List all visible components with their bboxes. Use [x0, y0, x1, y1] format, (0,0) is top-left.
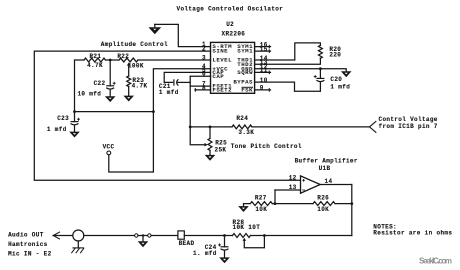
wire R20 bottom to pin13 THD2	[255, 58, 321, 64]
svg-text:C23: C23	[57, 115, 69, 122]
capacitor C22	[106, 86, 114, 89]
capacitor C24	[221, 247, 229, 250]
pin number 6	[202, 71, 206, 78]
wire R28 wiper loop	[244, 236, 264, 248]
pin number 12	[260, 64, 268, 71]
capacitor C23	[71, 122, 79, 125]
resistor R21	[84, 58, 106, 62]
svg-text:BEAD: BEAD	[179, 240, 195, 247]
pin number 16	[260, 41, 268, 48]
svg-text:1 mfd: 1 mfd	[330, 84, 350, 91]
pin number 9	[260, 85, 264, 92]
R28 wiper arrow	[243, 238, 247, 241]
svg-text:R22: R22	[117, 53, 129, 60]
op IC body U2 XR2206 box	[211, 42, 255, 93]
label R21 value 4.7K	[87, 62, 103, 69]
svg-text:10K: 10K	[317, 206, 329, 213]
IC pin name THD2 (pin13)	[237, 61, 253, 68]
resistor R20	[318, 45, 322, 58]
jack circle E2	[73, 230, 84, 241]
pin number 7	[202, 81, 206, 88]
control voltage input arrow	[370, 121, 377, 133]
wire pin14 THD1 up-and-over to R20	[255, 43, 321, 60]
ground at pin12 GND	[341, 71, 352, 77]
pin number 10	[260, 77, 268, 84]
wire pin6 CAP	[190, 75, 210, 77]
wire R24 to control voltage arrow	[252, 126, 370, 128]
wire R27 to R26	[272, 203, 313, 205]
label Mic IN - E2	[8, 251, 52, 258]
op-amp plus input mark	[302, 179, 305, 182]
svg-text:Hamtronics: Hamtronics	[8, 241, 48, 248]
R25 wiper arrow	[205, 143, 208, 147]
wire feedback vertical	[274, 190, 276, 204]
ferrite bead	[178, 231, 184, 239]
wire pin7 FSET1	[190, 85, 210, 87]
wire VCC terminal loop	[109, 112, 154, 172]
svg-text:100K: 100K	[128, 63, 144, 70]
svg-text:CAP: CAP	[212, 73, 224, 80]
capacitor C22 top lead	[109, 60, 111, 86]
label C23 value 1 mfd	[47, 126, 67, 133]
resistor R27	[250, 202, 272, 206]
pin number 12 (op-amp +)	[289, 175, 297, 182]
wire pin6/FSET1 vertical to tone pitch node	[189, 76, 191, 127]
wire op-amp inverting input	[275, 189, 301, 191]
node junction R24/R25 top	[209, 126, 212, 129]
label R25	[215, 140, 227, 147]
svg-text:Mic IN - E2: Mic IN - E2	[8, 251, 52, 258]
label R27	[255, 194, 267, 201]
label Hamtronics	[8, 241, 48, 248]
svg-text:XR2206: XR2206	[222, 30, 246, 37]
capacitor C23 top lead	[74, 112, 76, 122]
pin16 SYM1 stub	[255, 45, 271, 49]
svg-text:BYPAS: BYPAS	[233, 79, 253, 86]
label Audio OUT	[8, 231, 44, 238]
node junction C24	[223, 234, 226, 237]
svg-text:C22: C22	[94, 80, 106, 87]
wire R26 to output node	[335, 203, 352, 205]
wire shield to bead	[151, 235, 178, 237]
svg-text:14: 14	[325, 178, 333, 185]
wire R28 to op-amp output corner	[251, 235, 352, 237]
label C24	[205, 244, 217, 251]
svg-text:10K 10T: 10K 10T	[233, 224, 261, 231]
wire arrow to jack	[53, 235, 73, 237]
wire between shield terminals	[138, 235, 148, 237]
label C20	[330, 76, 342, 83]
label R25 value 25K	[215, 146, 227, 153]
wire pin1 S-RTM to top ground	[155, 24, 211, 46]
svg-text:from IC1B pin 7: from IC1B pin 7	[379, 123, 438, 130]
label Amplitude Control	[101, 41, 168, 48]
wire jack to shield terminal	[84, 235, 135, 237]
wire R23 to ground	[128, 87, 130, 96]
svg-text:U2: U2	[226, 21, 234, 28]
wire R21-R22 segment	[106, 59, 120, 61]
ground below R23	[123, 96, 134, 102]
label R26 value 10K	[317, 206, 329, 213]
svg-text:4.7K: 4.7K	[132, 82, 148, 89]
shield ground stem	[142, 236, 144, 242]
potentiometer R22	[119, 58, 138, 62]
node junction FSET1/R24/R25 wiper	[189, 126, 192, 129]
wire bead to C24/R28	[184, 235, 232, 237]
node junction R27/R26/feedback	[274, 202, 277, 205]
node junction R21/R22/C22	[109, 59, 112, 62]
R22 wiper arrow	[127, 62, 131, 65]
svg-text:SQRW: SQRW	[237, 69, 253, 76]
C23 polarity plus	[77, 118, 80, 121]
IC pin name LEVEL (pin3)	[212, 57, 232, 64]
pin number 5	[202, 67, 206, 74]
pin number 11	[260, 67, 268, 74]
wire C20 bottom to pin10 BYPAS	[255, 82, 321, 91]
C22 polarity plus	[113, 82, 116, 85]
wire R25 to ground	[209, 150, 211, 155]
IC pin name FSET2 (pin8)	[212, 87, 232, 94]
svg-text:Amplitude Control: Amplitude Control	[101, 41, 168, 48]
svg-text:R26: R26	[317, 194, 329, 201]
node junction R28 wiper tie	[263, 234, 266, 237]
svg-text:4.7K: 4.7K	[87, 62, 103, 69]
chassis ground stem	[77, 241, 79, 248]
svg-text:Tone Pitch Control: Tone Pitch Control	[231, 143, 302, 150]
label R21	[89, 53, 101, 60]
svg-text:VCC: VCC	[103, 143, 115, 150]
pin number 14 (op-amp out)	[325, 178, 333, 185]
wire C24 to ground	[224, 251, 226, 257]
label R22 value 100K	[128, 63, 144, 70]
wire op-amp output	[320, 184, 352, 186]
pin number 14	[260, 55, 268, 62]
svg-text:12: 12	[289, 175, 297, 182]
IC pin name CAP (pin6)	[212, 73, 224, 80]
svg-text:FSET2: FSET2	[212, 87, 232, 94]
svg-text:3.3K: 3.3K	[238, 129, 254, 136]
IC pin name BYPAS (pin10)	[233, 79, 253, 86]
label VCC	[103, 143, 115, 150]
IC pin name SINE (pin2)	[212, 48, 228, 55]
label NOTES:	[373, 224, 397, 231]
VCC terminal circle	[107, 151, 111, 155]
label R23 value 4.7K	[132, 82, 148, 89]
label R20	[329, 46, 341, 53]
pin number 13 (op-amp -)	[289, 184, 297, 191]
pin number 2	[202, 46, 206, 53]
svg-text:10K: 10K	[255, 206, 267, 213]
label R24 value 3.3K	[238, 129, 254, 136]
IC pin name SYM1 (pin15)	[237, 48, 253, 55]
label R20 value 220	[329, 51, 341, 58]
pin number 1	[202, 41, 206, 48]
svg-text:1 mfd: 1 mfd	[159, 89, 179, 96]
ground at pin1 net	[148, 24, 161, 34]
wire pin2 SINE to op-amp input (left outer wire)	[34, 51, 300, 180]
IC pin name SQRW (pin11)	[237, 69, 253, 76]
pin number 4	[202, 63, 206, 70]
svg-text:SYM1: SYM1	[237, 48, 253, 55]
wire pin3 LEVEL to R22	[138, 59, 211, 61]
IC pin name S-RTM (pin1)	[212, 43, 232, 50]
svg-text:SeekIC.com: SeekIC.com	[419, 257, 452, 266]
label C24 value 1. mfd	[193, 250, 217, 257]
wire pin12 GND to ground arrow	[255, 69, 347, 72]
wire R22 wiper to R23	[128, 66, 130, 76]
svg-text:Resistor are in ohms: Resistor are in ohms	[373, 229, 452, 236]
potentiometer R25	[208, 138, 212, 150]
capacitor C24 top lead	[224, 236, 226, 247]
shield terminal circle left	[135, 234, 138, 237]
IC pin name THD1 (pin14)	[237, 57, 253, 64]
IC U2 reference label	[226, 21, 234, 28]
wire C22 to ground	[109, 90, 111, 96]
resistor R26	[313, 202, 335, 206]
C20 polarity plus	[314, 75, 317, 78]
wire C23 to ground	[74, 126, 76, 132]
wire R21 left lead and corner down	[75, 60, 85, 112]
svg-text:Buffer Amplifier: Buffer Amplifier	[295, 158, 358, 165]
ground at cable shield	[138, 241, 149, 247]
wire feedback ground lead	[244, 204, 251, 207]
ground below C24	[219, 257, 230, 263]
label R23	[132, 77, 144, 84]
svg-text:SINE: SINE	[212, 48, 228, 55]
svg-text:R27: R27	[255, 194, 267, 201]
IC pin name CAP (pin5)	[212, 69, 224, 76]
label R27 value 10K	[255, 206, 267, 213]
label R26	[317, 194, 329, 201]
label C21 value 1 mfd	[159, 89, 179, 96]
svg-text:10: 10	[260, 77, 268, 84]
wire R25 top lead	[209, 127, 211, 138]
label C22 value 10 mfd	[77, 90, 101, 97]
node junction C23/R21	[73, 110, 76, 113]
shield terminal circle right	[148, 234, 151, 237]
label C20 value 1 mfd	[330, 84, 350, 91]
IC pin name FSET1 (pin7)	[212, 83, 232, 90]
audio out arrow	[53, 232, 60, 239]
label U1B	[319, 165, 331, 172]
IC pin name +VCC (pin4)	[212, 65, 228, 72]
ground below C23	[69, 132, 80, 138]
label C22	[94, 80, 106, 87]
wire R25 wiper to node	[190, 127, 204, 145]
label Tone Pitch Control	[231, 143, 302, 150]
wire pin5 CAP to C21	[164, 72, 210, 82]
label Buffer Amplifier	[295, 158, 358, 165]
chassis ground	[71, 248, 84, 253]
title: Voltage Controled Oscilator	[177, 5, 284, 12]
svg-text:10 mfd: 10 mfd	[77, 90, 101, 97]
ground at R27	[238, 206, 249, 212]
label R22	[117, 53, 129, 60]
pin8 FSET2 stub	[195, 88, 211, 92]
resistor R24	[232, 125, 252, 129]
op-amp minus input mark	[302, 189, 305, 191]
node junction VCC	[152, 110, 155, 113]
IC pin name FSK with overline (pin9)	[241, 87, 253, 94]
capacitor C20 top lead	[319, 69, 321, 79]
pin number 3	[202, 54, 206, 61]
label Control Voltage	[379, 116, 438, 123]
label BEAD	[179, 240, 195, 247]
label R24	[236, 115, 248, 122]
label Resistor are in ohms	[373, 229, 452, 236]
pin11 SQRW stub	[255, 71, 271, 75]
svg-text:R21: R21	[89, 53, 101, 60]
label R28	[233, 219, 245, 226]
svg-text:LEVEL: LEVEL	[212, 57, 232, 64]
svg-text:R24: R24	[236, 115, 248, 122]
ground below R25	[205, 155, 216, 161]
IC part number XR2206	[222, 30, 246, 37]
IC pin name GND (pin12)	[241, 65, 253, 72]
watermark SeekIC.com	[419, 257, 452, 266]
C24 polarity plus	[218, 243, 221, 246]
svg-text:9: 9	[260, 85, 264, 92]
wire C21 to pin6 CAP	[178, 81, 191, 83]
svg-text:1. mfd: 1. mfd	[193, 250, 217, 257]
svg-text:1 mfd: 1 mfd	[47, 126, 67, 133]
ground below C22	[105, 96, 116, 102]
svg-text:C20: C20	[330, 76, 342, 83]
wire node to R24	[190, 126, 232, 128]
IC pin name SYM1 (pin16)	[237, 43, 253, 50]
pin15 SYM1 stub	[255, 49, 271, 53]
pin number 13	[260, 59, 268, 66]
svg-text:25K: 25K	[215, 146, 227, 153]
label C21	[159, 83, 171, 90]
capacitor C20	[316, 78, 324, 81]
node junction output/R26	[350, 202, 353, 205]
potentiometer R28	[233, 234, 251, 238]
label C23	[57, 115, 69, 122]
svg-text:Voltage Controled Oscilator: Voltage Controled Oscilator	[177, 5, 284, 12]
capacitor C21	[174, 79, 179, 85]
svg-text:Audio OUT: Audio OUT	[8, 231, 44, 238]
node junction C20 top	[319, 67, 322, 70]
node shield ground tap	[142, 234, 144, 236]
wire VCC node horizontal	[75, 111, 154, 113]
resistor R23	[127, 76, 131, 87]
label R28 value 10K 10T	[233, 224, 261, 231]
svg-text:220: 220	[329, 51, 341, 58]
pin number 8	[202, 84, 206, 91]
pin9 FSK stub	[255, 88, 271, 92]
wire pin4 +VCC to vertical	[153, 69, 210, 112]
op-amp U1B triangle	[301, 176, 321, 193]
svg-text:U1B: U1B	[319, 165, 331, 172]
wire output down to audio line	[351, 185, 353, 236]
pin number 15	[260, 46, 268, 53]
label from IC1B pin 7	[379, 123, 438, 130]
